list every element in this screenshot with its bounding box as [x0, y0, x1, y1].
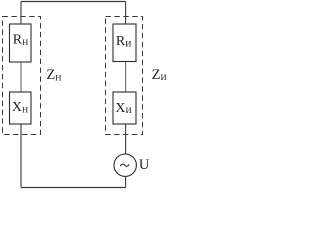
AC source tilde — [120, 164, 129, 166]
resistor RН — [10, 24, 32, 62]
wire: left branch between RН and XН — [20, 62, 22, 92]
wire: left branch vertical top — [20, 2, 22, 25]
wire: bottom horizontal — [21, 187, 126, 189]
svg-text:ZН: ZН — [46, 67, 61, 83]
resistor RИ — [113, 24, 136, 62]
svg-text:U: U — [139, 157, 150, 173]
wire: left branch vertical bottom — [20, 124, 22, 188]
dashed box ZИ (source impedance) — [106, 17, 143, 135]
wire: right branch source to bottom — [125, 177, 127, 188]
wire: right branch XИ to source — [125, 124, 127, 154]
reactance XН — [10, 92, 32, 124]
AC source U: circle — [114, 154, 136, 176]
svg-text:ZИ: ZИ — [152, 67, 167, 83]
dashed box ZН (load impedance) — [3, 17, 41, 135]
wire: right branch between RИ and XИ — [125, 62, 127, 93]
reactance XИ — [113, 92, 136, 124]
wire: top horizontal — [21, 1, 126, 3]
wire: right branch vertical top — [125, 2, 127, 25]
